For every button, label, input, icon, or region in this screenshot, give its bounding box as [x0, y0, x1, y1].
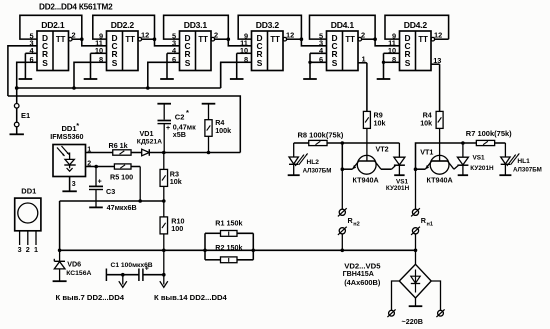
- svg-text:АЛ307БМ: АЛ307БМ: [303, 167, 332, 174]
- svg-text:C3: C3: [106, 187, 115, 196]
- svg-text:DD2.2: DD2.2: [111, 20, 135, 30]
- svg-text:S: S: [42, 58, 48, 68]
- svg-text:КУ201Н: КУ201Н: [386, 185, 410, 192]
- svg-text:12: 12: [434, 31, 442, 40]
- svg-text:10k: 10k: [420, 118, 432, 127]
- svg-text:АЛ307БМ: АЛ307БМ: [513, 167, 542, 174]
- svg-text:(4Ах600В): (4Ах600В): [344, 278, 381, 287]
- svg-text:+: +: [98, 178, 102, 185]
- svg-text:C1 100мкх6В: C1 100мкх6В: [111, 262, 153, 269]
- svg-text:1: 1: [362, 54, 366, 63]
- svg-text:TT: TT: [56, 35, 66, 44]
- svg-text:TT: TT: [345, 35, 355, 44]
- svg-text:КД521А: КД521А: [137, 139, 162, 146]
- svg-text:47мкх6В: 47мкх6В: [107, 203, 137, 212]
- svg-text:КТ940А: КТ940А: [427, 175, 453, 184]
- svg-text:R8 100k(75k): R8 100k(75k): [298, 130, 344, 139]
- svg-text:TT: TT: [270, 35, 280, 44]
- svg-text:VT2: VT2: [376, 145, 389, 154]
- svg-text:10k: 10k: [374, 118, 386, 127]
- svg-text:2: 2: [87, 160, 91, 167]
- svg-text:+: +: [166, 125, 170, 132]
- svg-text:HL1: HL1: [517, 158, 530, 165]
- svg-text:х5В: х5В: [173, 130, 186, 139]
- svg-text:DD4.2: DD4.2: [404, 20, 428, 30]
- svg-text:HL2: HL2: [307, 159, 320, 166]
- svg-text:К выв.7 DD2...DD4: К выв.7 DD2...DD4: [56, 293, 125, 302]
- svg-text:13: 13: [433, 56, 441, 65]
- svg-text:R1 150k: R1 150k: [215, 219, 242, 228]
- svg-text:S: S: [257, 58, 263, 68]
- svg-text:КТ940А: КТ940А: [353, 175, 379, 184]
- svg-text:2: 2: [361, 31, 365, 40]
- svg-text:VD2...VD5: VD2...VD5: [344, 262, 381, 271]
- svg-text:3: 3: [72, 181, 76, 188]
- svg-text:VT1: VT1: [420, 147, 433, 156]
- svg-text:DD2...DD4 К561ТМ2: DD2...DD4 К561ТМ2: [39, 2, 113, 11]
- svg-text:3: 3: [18, 245, 22, 254]
- svg-text:S: S: [332, 58, 338, 68]
- svg-text:R7 100k(75k): R7 100k(75k): [466, 129, 512, 138]
- svg-text:2: 2: [72, 31, 76, 40]
- svg-text:DD4.1: DD4.1: [331, 20, 355, 30]
- svg-text:100k: 100k: [215, 126, 231, 135]
- svg-text:VD6: VD6: [67, 259, 81, 268]
- svg-text:TT: TT: [198, 35, 208, 44]
- svg-text:R5 100: R5 100: [110, 173, 133, 182]
- svg-text:н1: н1: [427, 222, 434, 228]
- svg-text:R6 1k: R6 1k: [109, 141, 128, 150]
- svg-text:К выв.14 DD2...DD4: К выв.14 DD2...DD4: [154, 293, 228, 302]
- svg-text:IFMS5360: IFMS5360: [50, 132, 83, 141]
- svg-text:12: 12: [141, 31, 149, 40]
- svg-text:100: 100: [171, 224, 183, 233]
- svg-text:*: *: [186, 108, 189, 117]
- svg-text:VS1: VS1: [473, 155, 486, 162]
- svg-text:2: 2: [214, 31, 218, 40]
- svg-text:S: S: [405, 58, 411, 68]
- svg-text:VD1: VD1: [140, 129, 154, 138]
- svg-text:C2: C2: [175, 113, 185, 122]
- svg-text:DD1: DD1: [21, 187, 36, 196]
- svg-text:S: S: [112, 58, 118, 68]
- svg-text:E1: E1: [21, 111, 30, 120]
- svg-text:10k: 10k: [170, 177, 182, 186]
- svg-text:1: 1: [87, 147, 91, 154]
- svg-text:КС156А: КС156А: [66, 270, 91, 277]
- svg-text:DD2.1: DD2.1: [41, 20, 65, 30]
- svg-text:н2: н2: [353, 222, 360, 228]
- svg-text:R2 150k: R2 150k: [215, 243, 242, 252]
- svg-text:TT: TT: [125, 35, 135, 44]
- svg-text:2: 2: [26, 245, 30, 254]
- svg-text:TT: TT: [418, 35, 428, 44]
- svg-text:1: 1: [34, 245, 38, 254]
- svg-text:КУ201Н: КУ201Н: [470, 165, 494, 172]
- svg-text:12: 12: [286, 31, 294, 40]
- svg-text:S: S: [185, 58, 191, 68]
- svg-text:DD3.1: DD3.1: [184, 20, 208, 30]
- svg-text:~220В: ~220В: [402, 317, 423, 326]
- svg-text:*: *: [76, 121, 79, 130]
- svg-text:DD3.2: DD3.2: [256, 20, 280, 30]
